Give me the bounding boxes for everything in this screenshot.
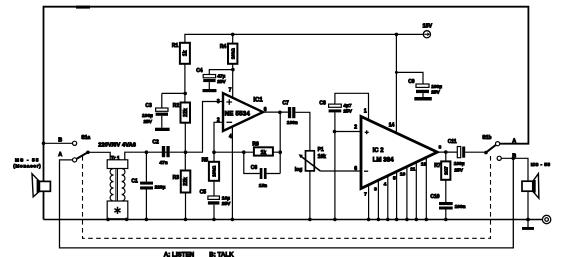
capacitor C5 10u [213,181,215,220]
svg-text:R4: R4 [220,44,227,50]
svg-text:25V: 25V [143,119,152,125]
svg-text:4µ7: 4µ7 [343,103,351,109]
capacitor C1 220u [145,152,147,219]
svg-text:B: TALK: B: TALK [209,251,234,257]
svg-text:C5: C5 [200,190,207,196]
svg-text:25V: 25V [454,167,463,173]
svg-text:P1: P1 [318,147,324,153]
wire: IC2 pin 12 to ground [421,158,428,222]
svg-text:4: 4 [384,181,387,187]
svg-text:100µ: 100µ [431,84,442,90]
svg-text:220µ: 220µ [155,185,166,191]
capacitor C3 100u decoupling [162,93,185,108]
svg-text:A: A [58,152,62,158]
wire: IC1 pin2 to R5 [214,122,223,162]
svg-text:IC 2: IC 2 [373,148,385,154]
node: rail junction at pin14 branch [395,33,399,37]
svg-text:100µ: 100µ [454,161,465,167]
svg-text:25V: 25V [222,201,231,207]
svg-text:100Ω: 100Ω [212,165,217,176]
svg-text:2Ω7: 2Ω7 [444,166,449,175]
wire: smudge artifact on top border [76,6,90,9]
wire: P1 wiper to IC2 pin6 [320,170,361,172]
terminal: +15V supply [423,31,430,38]
svg-text:2: 2 [354,125,357,131]
svg-text:22k: 22k [183,108,189,117]
capacitor C10 100n [445,180,447,202]
svg-text:C7: C7 [282,101,289,107]
svg-text:C9: C9 [408,79,415,85]
svg-text:LM 384: LM 384 [373,156,395,163]
svg-text:NE 5534: NE 5534 [225,111,251,118]
svg-text:R1: R1 [172,43,179,49]
svg-text:8: 8 [439,145,442,150]
wire: IC2 pin 5 to ground [393,172,398,221]
svg-text:MS - 55: MS - 55 [531,162,551,168]
svg-text:7: 7 [229,88,232,94]
svg-text:C6: C6 [251,165,258,171]
svg-text:10k: 10k [318,154,327,160]
wire: +15V rail [185,34,423,42]
svg-text:3: 3 [217,99,220,105]
wire: ground bus bottom [44,219,543,221]
svg-text:6: 6 [354,166,357,172]
node: bias junction R2/R3 [184,150,188,154]
capacitor C4 47u [209,70,233,75]
wire: IC1 pin4 to ground [231,127,233,219]
svg-text:C1: C1 [131,178,138,184]
svg-text:1k: 1k [261,150,267,156]
svg-text:(Monacor): (Monacor) [13,163,41,168]
svg-text:C11: C11 [448,139,457,145]
wire: IC2 pin 11 to ground [410,162,418,221]
speaker LS left MS-55 [32,174,39,197]
svg-text:B: B [58,137,62,143]
svg-text:C10: C10 [430,194,439,200]
svg-text:5: 5 [393,176,396,182]
wire: C7 to P1 [295,112,310,151]
svg-text:11: 11 [410,167,415,173]
svg-text:C8: C8 [319,101,326,107]
svg-text:C3: C3 [145,103,152,109]
wire: transformer secondary to C2 node [125,152,170,160]
switch S1a [44,142,73,144]
ground: below right speaker [527,220,529,228]
wire: C2 to IC1 pin3 [170,102,223,153]
wire: bottom rail (left contact A to right contact B) [60,158,514,248]
svg-text:R7: R7 [434,163,441,169]
svg-text:S1a: S1a [81,135,90,141]
svg-text:4: 4 [229,134,232,140]
wire: dashed mechanical link S1a-S1b [83,154,491,238]
wire: R2 to R3 through bias junction [184,123,186,171]
wire: IC2 pin 3 to ground [374,181,380,222]
op-amp IC1 NE5534 [223,93,263,131]
svg-text:10: 10 [400,171,406,177]
svg-text:C4: C4 [196,68,203,74]
svg-text:R3: R3 [173,175,180,181]
svg-text:25V: 25V [343,108,352,114]
wire: R1 bottom to bias node [184,64,186,103]
wire: pin14 supply drop [395,34,397,133]
svg-text:10µ: 10µ [222,196,230,202]
wire: C11 to S1b common [465,151,484,153]
wire: IC2 pin 10 to ground [400,167,409,221]
svg-text:1: 1 [364,109,367,115]
svg-text:7: 7 [364,192,367,198]
wire: IC2 pin 4 to ground [384,176,390,221]
svg-text:MS - 55: MS - 55 [15,157,40,163]
svg-text:R2: R2 [173,103,180,109]
svg-text:22k: 22k [183,177,189,186]
power amp IC2 LM384 [361,117,437,189]
svg-text:A: LISTEN: A: LISTEN [164,251,195,257]
svg-text:15V: 15V [423,24,433,30]
svg-text:25V: 25V [217,79,226,85]
svg-text:100µ: 100µ [142,113,153,119]
wire: outer frame left/top/right (left speaker node B to right switch contact A) [44,7,529,220]
capacitor C6 15n [244,112,280,173]
svg-text:log: log [295,167,303,173]
svg-text:R5: R5 [202,158,209,164]
wire: S1b contact B to speaker and bottom rail [501,158,528,181]
svg-text:25V: 25V [431,90,440,96]
ground: below C4 [208,82,210,89]
wire: S1a common to transformer primary [88,152,110,160]
svg-text:100Ω: 100Ω [230,48,235,59]
node: C1 junction [145,150,149,154]
resistor R6 1k feedback [214,151,280,153]
svg-text:100n: 100n [455,204,466,210]
wire: IC1 output [263,111,288,113]
node: rail junction at R4 [231,33,235,37]
svg-text:S1b: S1b [482,135,491,141]
svg-text:C2: C2 [152,139,159,145]
svg-text:12: 12 [421,161,427,167]
svg-text:3: 3 [374,186,377,192]
wire: IC2 output [437,151,457,153]
svg-text:100n: 100n [287,120,298,126]
wire: C8 bottom / IC2 pin2 / ground [335,112,362,219]
svg-text:47µ: 47µ [217,74,225,80]
svg-text:1k: 1k [183,50,189,56]
svg-text:A: A [512,138,516,144]
ground: below C9 [422,93,424,97]
svg-text:14: 14 [389,122,395,128]
svg-text:220V/6V 4VA6: 220V/6V 4VA6 [98,142,136,148]
svg-text:47n: 47n [159,160,167,166]
capacitor C9 100u [396,72,423,84]
svg-text:15n: 15n [259,183,267,189]
wire: IC2 pin 7 to ground [364,185,370,221]
ground: below C3 [161,116,163,128]
terminal: ground/common [542,215,550,223]
svg-text:IC1: IC1 [253,97,263,103]
resistor R7 2R7 [445,152,447,161]
